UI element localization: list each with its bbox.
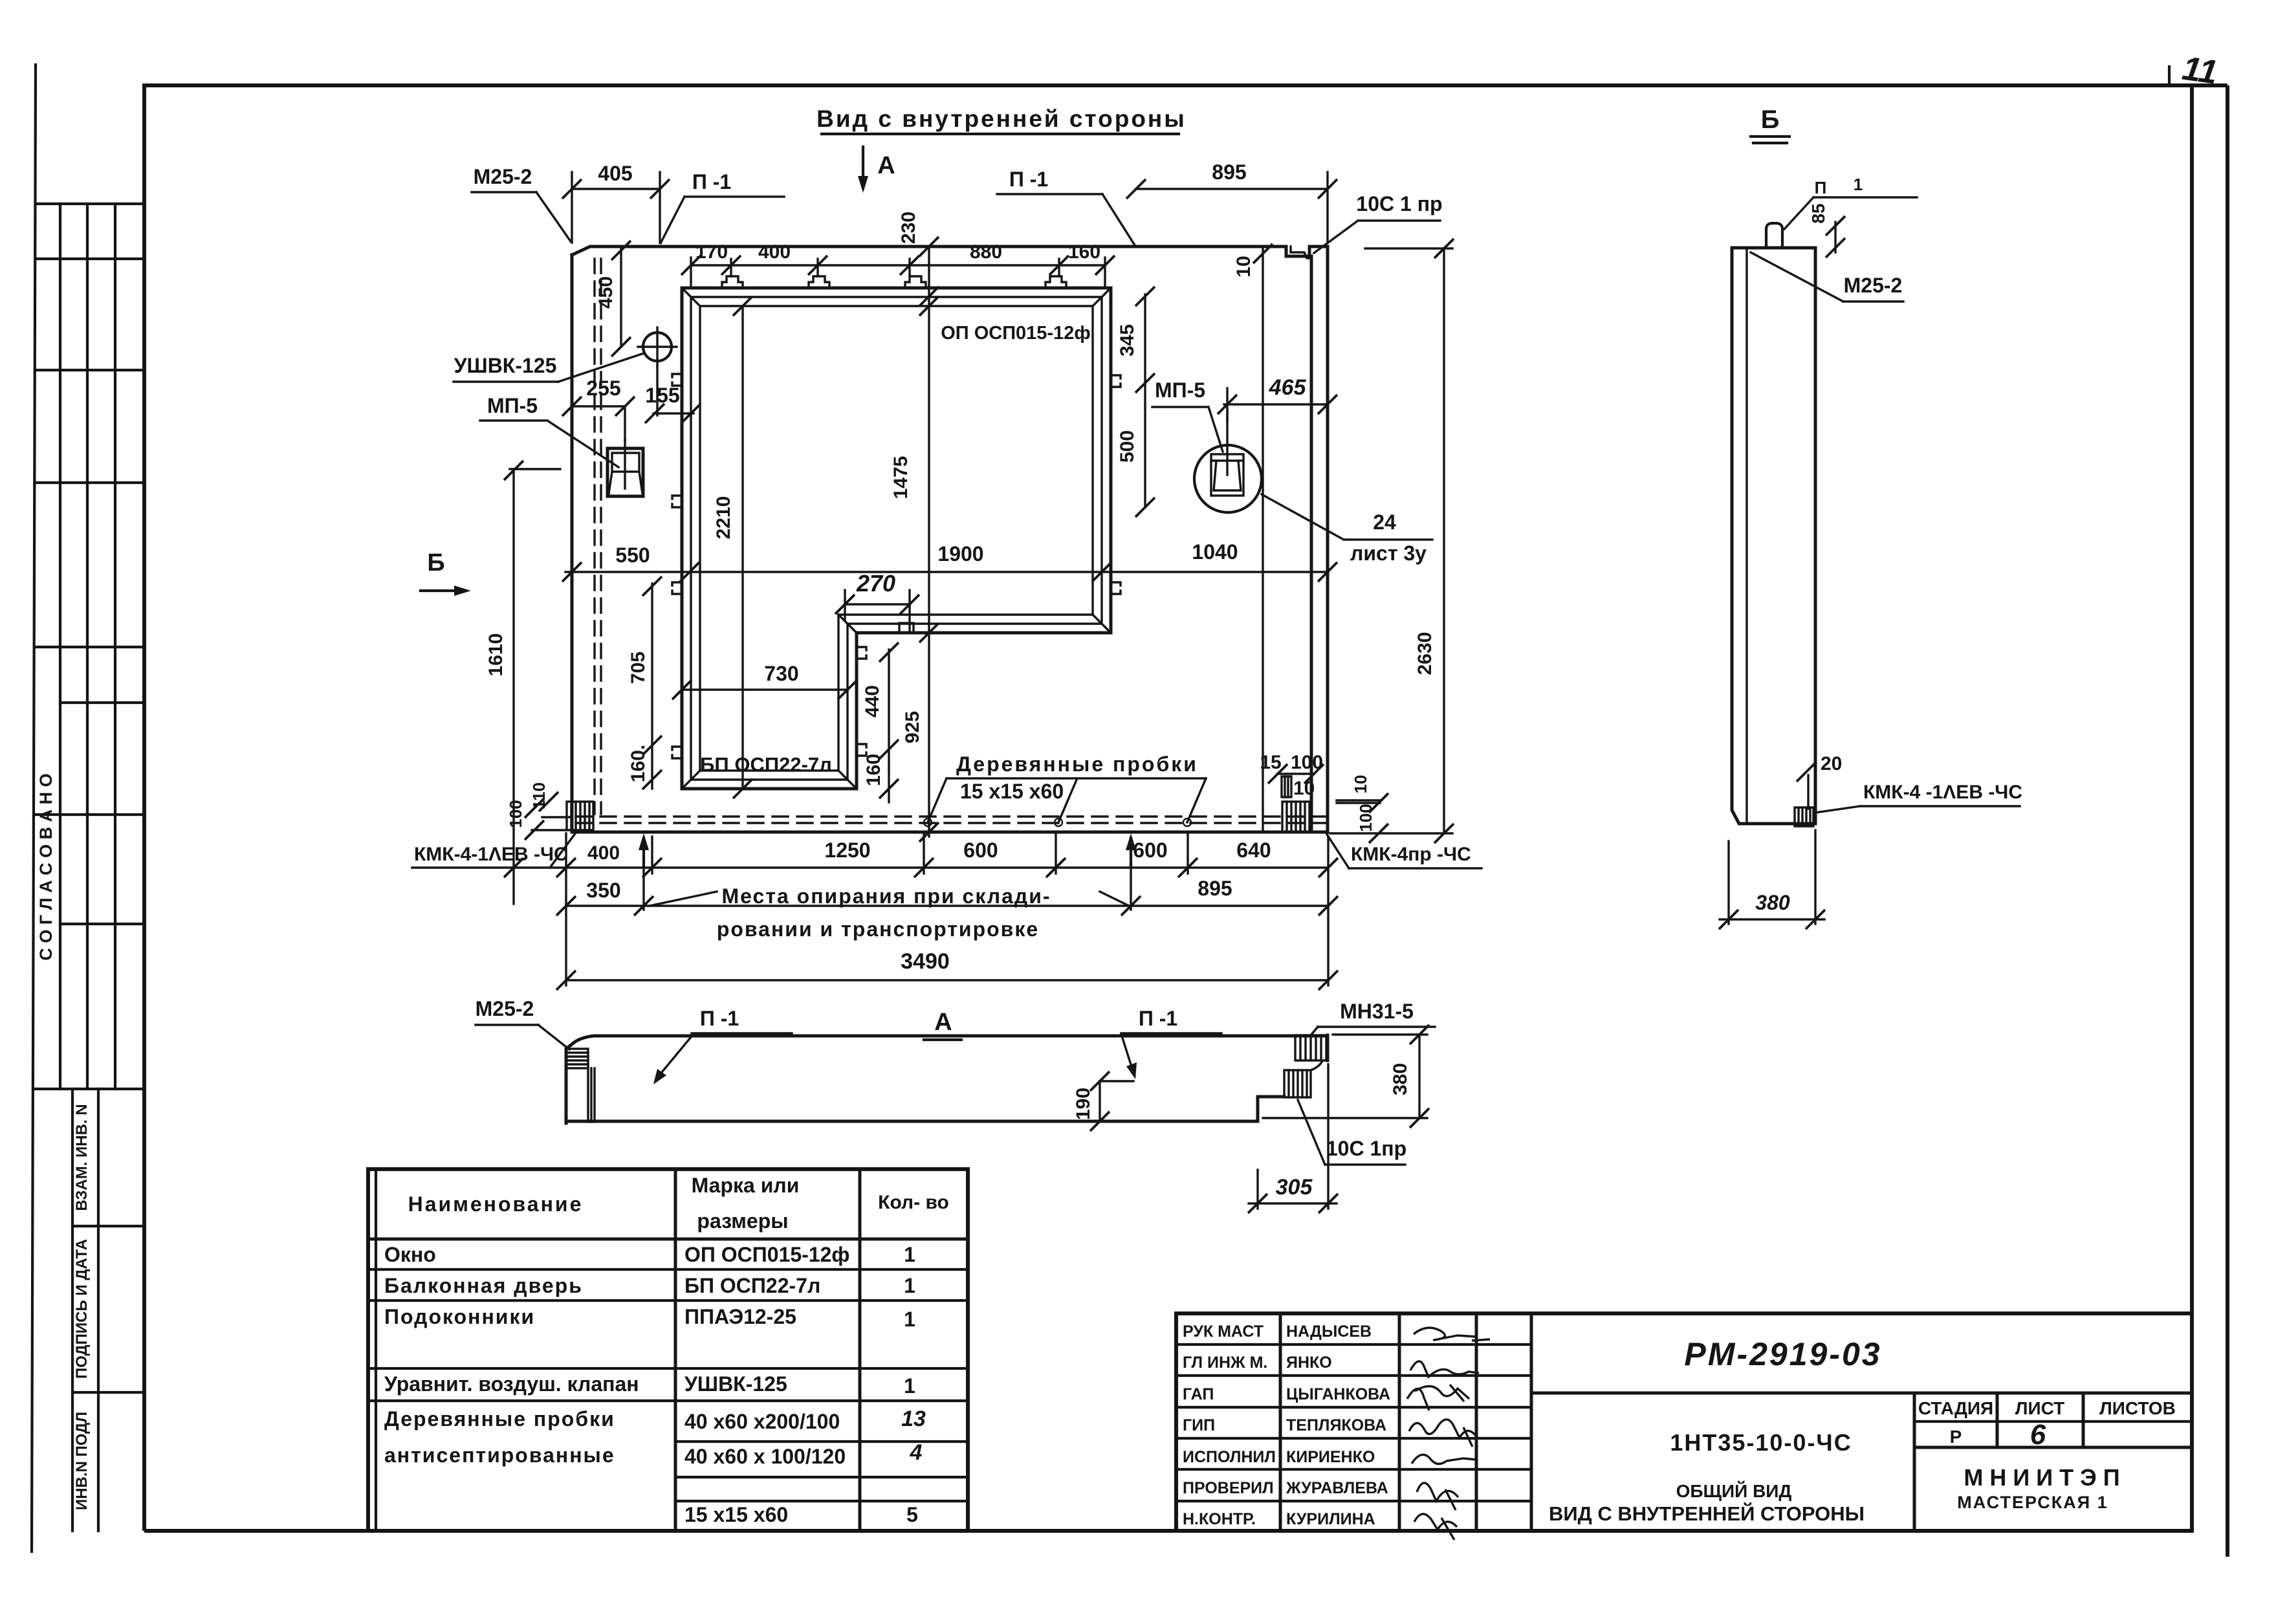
svg-text:550: 550 xyxy=(615,543,650,567)
small hatch 15 wide xyxy=(1282,776,1291,797)
svg-text:СТАДИЯ: СТАДИЯ xyxy=(1918,1398,1993,1418)
svg-text:350: 350 xyxy=(586,879,620,902)
svg-text:Деревянные пробки: Деревянные пробки xyxy=(956,752,1198,776)
svg-text:10: 10 xyxy=(1351,775,1370,794)
svg-text:П -1: П -1 xyxy=(700,1007,739,1030)
svg-text:ГАП: ГАП xyxy=(1183,1385,1214,1403)
svg-text:6: 6 xyxy=(2030,1419,2046,1451)
svg-text:255: 255 xyxy=(586,377,620,400)
svg-text:ОП ОСП015-12ф: ОП ОСП015-12ф xyxy=(941,323,1090,344)
svg-text:40 х60 х 100/120: 40 х60 х 100/120 xyxy=(684,1445,846,1468)
svg-text:20: 20 xyxy=(1821,753,1842,774)
svg-text:Кол- во: Кол- во xyxy=(878,1192,949,1213)
bracket МП-5 right in circle xyxy=(1194,445,1262,512)
svg-text:450: 450 xyxy=(595,276,617,309)
svg-text:160: 160 xyxy=(863,754,884,786)
section A left end strip xyxy=(566,1049,588,1068)
svg-text:880: 880 xyxy=(970,241,1002,263)
svg-text:УШВК-125: УШВК-125 xyxy=(684,1372,787,1396)
svg-text:РМ-2919-03: РМ-2919-03 xyxy=(1684,1336,1881,1372)
svg-text:345: 345 xyxy=(1117,324,1138,357)
dim row 350 895 xyxy=(566,905,1328,906)
hidden edge dashed horizontals xyxy=(576,815,1325,817)
svg-text:925: 925 xyxy=(902,711,923,743)
svg-text:895: 895 xyxy=(1212,160,1246,184)
left strip lower cells xyxy=(71,1089,74,1531)
svg-text:ЛИСТ: ЛИСТ xyxy=(2015,1398,2064,1418)
svg-text:2630: 2630 xyxy=(1414,632,1436,675)
svg-text:730: 730 xyxy=(764,662,798,685)
frame side tabs xyxy=(672,374,682,386)
КМК hatch side xyxy=(1795,807,1813,826)
svg-text:ЦЫГАНКОВА: ЦЫГАНКОВА xyxy=(1286,1385,1390,1403)
svg-text:ИСПОЛНИЛ: ИСПОЛНИЛ xyxy=(1183,1448,1276,1466)
svg-text:1610: 1610 xyxy=(485,633,507,677)
svg-text:155: 155 xyxy=(645,384,679,407)
dim 190 xyxy=(1099,1081,1100,1121)
svg-text:РУК МАСТ: РУК МАСТ xyxy=(1183,1322,1264,1341)
left strip column lines xyxy=(59,204,61,1089)
svg-text:11: 11 xyxy=(2180,50,2220,92)
extension lines to row1 xyxy=(923,833,925,873)
svg-text:465: 465 xyxy=(1269,375,1307,400)
reference vertical line window centerline xyxy=(928,247,930,837)
svg-text:ровании и транспортировке: ровании и транспортировке xyxy=(717,917,1039,941)
svg-text:М25-2: М25-2 xyxy=(1844,274,1903,297)
svg-text:1: 1 xyxy=(904,1308,915,1331)
svg-text:3490: 3490 xyxy=(901,949,950,974)
svg-text:ГЛ ИНЖ М.: ГЛ ИНЖ М. xyxy=(1183,1354,1267,1372)
svg-text:1475: 1475 xyxy=(890,456,912,499)
section A lower anchor hatch xyxy=(1284,1070,1311,1097)
svg-text:П: П xyxy=(1815,178,1827,197)
svg-text:МАСТЕРСКАЯ 1: МАСТЕРСКАЯ 1 xyxy=(1957,1493,2108,1512)
spec table frame xyxy=(368,1169,968,1531)
svg-text:ВЗАМ. ИНВ. N: ВЗАМ. ИНВ. N xyxy=(73,1104,91,1211)
svg-text:Балконная дверь: Балконная дверь xyxy=(384,1274,583,1297)
svg-text:П -1: П -1 xyxy=(1009,168,1048,191)
svg-text:230: 230 xyxy=(898,212,919,244)
frame corner mitres xyxy=(682,288,1111,789)
svg-text:ППАЭ12-25: ППАЭ12-25 xyxy=(684,1305,796,1328)
svg-text:405: 405 xyxy=(598,162,632,185)
title block frame xyxy=(1176,1313,2192,1531)
svg-text:МН31-5: МН31-5 xyxy=(1340,1000,1414,1023)
svg-text:ИНВ.N ПОДЛ: ИНВ.N ПОДЛ xyxy=(73,1412,91,1510)
svg-text:640: 640 xyxy=(1236,839,1271,862)
svg-text:Уравнит. воздуш. клапан: Уравнит. воздуш. клапан xyxy=(384,1372,639,1396)
svg-text:МП-5: МП-5 xyxy=(1155,379,1205,402)
svg-text:1040: 1040 xyxy=(1192,540,1238,564)
svg-text:лист 3у: лист 3у xyxy=(1350,542,1427,565)
svg-text:ЯНКО: ЯНКО xyxy=(1286,1354,1332,1372)
svg-text:А: А xyxy=(877,152,895,179)
dim 2210 xyxy=(741,306,743,789)
dim 380 side xyxy=(1727,841,1729,924)
svg-text:Подоконники: Подоконники xyxy=(384,1305,535,1328)
svg-text:600: 600 xyxy=(963,839,998,862)
valve УШВК-125 circle xyxy=(643,333,672,361)
svg-text:600: 600 xyxy=(1133,839,1167,862)
svg-text:БП ОСП22-7л: БП ОСП22-7л xyxy=(684,1274,820,1297)
svg-text:1: 1 xyxy=(904,1374,915,1398)
opening: frame inner line xyxy=(700,306,1093,771)
top right notch hook xyxy=(1291,247,1311,258)
svg-text:ОП ОСП015-12ф: ОП ОСП015-12ф xyxy=(684,1243,849,1266)
svg-text:15 х15 х60: 15 х15 х60 xyxy=(684,1503,788,1526)
dim 85 xyxy=(1834,222,1836,252)
svg-text:13: 13 xyxy=(901,1407,926,1431)
svg-text:ГИП: ГИП xyxy=(1183,1416,1215,1434)
svg-text:24: 24 xyxy=(1373,510,1396,534)
svg-text:ЛИСТОВ: ЛИСТОВ xyxy=(2099,1398,2176,1418)
svg-text:10С 1 пр: 10С 1 пр xyxy=(1356,192,1442,215)
dim 440 and 160 door right xyxy=(888,650,890,802)
svg-text:С О Г Л А С О В А Н О: С О Г Л А С О В А Н О xyxy=(36,773,56,960)
svg-text:440: 440 xyxy=(862,685,883,718)
svg-text:1НТ35-10-0-ЧС: 1НТ35-10-0-ЧС xyxy=(1670,1429,1852,1456)
svg-text:КМК-4-1ΛЕВ -ЧС: КМК-4-1ΛЕВ -ЧС xyxy=(414,844,568,865)
opening: frame mid line xyxy=(691,297,1102,780)
dim row 400 1250 600 600 640 xyxy=(412,866,1328,868)
dim chain 170 400 880 160 xyxy=(691,264,1105,266)
section A upper anchor hatch xyxy=(1295,1035,1328,1060)
svg-text:ВИД С ВНУТРЕННЕЙ СТОРОНЫ: ВИД С ВНУТРЕННЕЙ СТОРОНЫ xyxy=(1549,1502,1865,1525)
svg-text:Р: Р xyxy=(1950,1427,1962,1447)
svg-text:40 х60 х200/100: 40 х60 х200/100 xyxy=(684,1410,840,1433)
sill tab xyxy=(899,623,914,633)
anchor КМК-4-1лев hatch xyxy=(567,802,593,830)
top loop М25-2 xyxy=(1766,223,1782,248)
svg-text:П -1: П -1 xyxy=(692,170,731,193)
left strip row lines xyxy=(36,203,144,205)
svg-text:М Н И И Т Э П: М Н И И Т Э П xyxy=(1964,1464,2119,1491)
svg-text:МП-5: МП-5 xyxy=(487,394,538,417)
svg-text:Наименование: Наименование xyxy=(408,1192,584,1216)
svg-text:10: 10 xyxy=(1233,256,1254,277)
svg-text:КУРИЛИНА: КУРИЛИНА xyxy=(1286,1510,1375,1528)
dim 705 xyxy=(651,584,653,789)
svg-text:10С 1пр: 10С 1пр xyxy=(1326,1137,1406,1160)
svg-text:ОБЩИЙ ВИД: ОБЩИЙ ВИД xyxy=(1676,1480,1792,1501)
svg-text:1900: 1900 xyxy=(937,542,983,565)
signatures squiggles xyxy=(1414,1328,1490,1341)
svg-text:160.: 160. xyxy=(628,745,649,782)
svg-text:ТЕПЛЯКОВА: ТЕПЛЯКОВА xyxy=(1286,1416,1386,1434)
svg-text:Окно: Окно xyxy=(384,1243,436,1266)
svg-text:УШВК-125: УШВК-125 xyxy=(454,354,557,377)
dim 2630 xyxy=(1365,247,1452,249)
svg-text:Вид с внутренней стороны: Вид с внутренней стороны xyxy=(816,105,1187,132)
svg-text:ЖУРАВЛЕВА: ЖУРАВЛЕВА xyxy=(1286,1479,1388,1497)
svg-text:380: 380 xyxy=(1390,1063,1411,1095)
sheet left edge line xyxy=(32,65,36,1552)
plug points xyxy=(924,818,932,826)
svg-text:100: 100 xyxy=(506,800,525,828)
dim 3490 xyxy=(566,979,1328,981)
svg-text:170: 170 xyxy=(695,241,728,263)
svg-text:Марка или: Марка или xyxy=(692,1174,800,1197)
anchor loops on window head xyxy=(722,276,743,288)
svg-text:160: 160 xyxy=(1068,241,1100,263)
svg-text:1250: 1250 xyxy=(824,839,870,862)
dim 1610 xyxy=(512,469,514,904)
svg-text:5: 5 xyxy=(906,1503,918,1526)
panel right inner edge xyxy=(1310,256,1313,832)
svg-text:1: 1 xyxy=(904,1243,915,1266)
svg-text:895: 895 xyxy=(1198,877,1232,900)
svg-text:1: 1 xyxy=(904,1274,915,1297)
window and door opening: outer edge xyxy=(682,288,1111,789)
svg-text:М25-2: М25-2 xyxy=(474,165,532,188)
svg-text:305: 305 xyxy=(1276,1175,1313,1200)
svg-text:10: 10 xyxy=(1293,778,1315,799)
side view outline xyxy=(1732,248,1815,824)
support arrows xyxy=(642,839,645,868)
svg-text:400: 400 xyxy=(758,241,791,263)
svg-text:КМК-4 -1ΛЕВ -ЧС: КМК-4 -1ΛЕВ -ЧС xyxy=(1863,782,2022,803)
svg-text:размеры: размеры xyxy=(697,1209,788,1233)
bracket МП-5 left xyxy=(607,448,643,496)
dim 380 section A xyxy=(1333,1033,1427,1035)
svg-text:Б: Б xyxy=(427,549,444,576)
svg-text:705: 705 xyxy=(628,652,649,684)
svg-text:400: 400 xyxy=(587,842,620,864)
svg-text:НАДЫСЕВ: НАДЫСЕВ xyxy=(1286,1322,1372,1341)
svg-text:Места опирания при склади-: Места опирания при склади- xyxy=(721,884,1051,908)
svg-text:А: А xyxy=(934,1009,952,1036)
page number mark xyxy=(2168,67,2171,85)
dims 10 100 outside right xyxy=(1337,799,1380,801)
svg-text:Деревянные пробки: Деревянные пробки xyxy=(384,1407,615,1431)
svg-text:15: 15 xyxy=(1260,752,1281,773)
svg-text:85: 85 xyxy=(1808,203,1828,223)
section A bar outline xyxy=(566,1036,1326,1123)
svg-text:4: 4 xyxy=(910,1440,923,1465)
svg-text:270: 270 xyxy=(856,570,895,597)
svg-text:1: 1 xyxy=(1854,175,1863,194)
dims 345 and 500 xyxy=(1144,294,1146,507)
svg-text:П -1: П -1 xyxy=(1139,1007,1177,1030)
anchor КМК-4пр hatch xyxy=(1282,802,1310,832)
svg-text:антисептированные: антисептированные xyxy=(384,1443,615,1467)
svg-text:15 х15 х60: 15 х15 х60 xyxy=(960,780,1064,803)
svg-text:190: 190 xyxy=(1073,1088,1094,1120)
svg-text:КИРИЕНКО: КИРИЕНКО xyxy=(1286,1448,1375,1466)
svg-text:М25-2: М25-2 xyxy=(476,997,534,1020)
svg-text:Н.КОНТР.: Н.КОНТР. xyxy=(1183,1510,1256,1528)
panel outline xyxy=(572,247,1328,832)
section arrow А xyxy=(862,147,864,186)
svg-text:ПРОВЕРИЛ: ПРОВЕРИЛ xyxy=(1183,1479,1274,1497)
svg-text:2210: 2210 xyxy=(713,496,734,540)
hidden edge dashed verticals xyxy=(593,259,595,814)
reference vertical line right xyxy=(1262,247,1264,832)
svg-text:Б: Б xyxy=(1761,105,1780,134)
dim chain 550 1900 1040 xyxy=(565,571,1328,573)
svg-text:БП ОСП22-7л: БП ОСП22-7л xyxy=(700,753,832,776)
svg-text:380: 380 xyxy=(1755,891,1790,914)
ext lines to loops xyxy=(730,259,732,276)
svg-text:ПОДПИСЬ И ДАТА: ПОДПИСЬ И ДАТА xyxy=(73,1239,91,1379)
svg-text:500: 500 xyxy=(1117,430,1138,463)
svg-text:КМК-4пр -ЧС: КМК-4пр -ЧС xyxy=(1351,844,1471,865)
